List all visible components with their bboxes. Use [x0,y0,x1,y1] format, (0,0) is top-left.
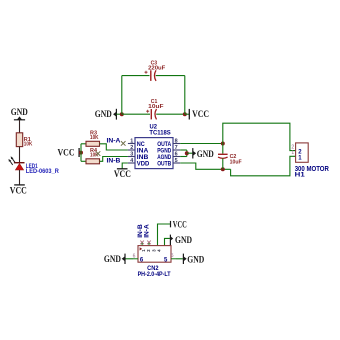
svg-text:2: 2 [130,145,133,151]
wire C2 top lead [222,144,224,154]
connector CN2 body [138,246,171,263]
wire left GND to CN2 [125,258,133,260]
U2 pin 6 stub [173,156,180,158]
wire CN2 to right GND [176,258,183,260]
junction node C2 bottom [221,167,225,171]
svg-text:5: 5 [171,253,174,259]
LED LED1 [9,156,25,170]
wire C1 to right node [156,113,185,115]
ground GND (decoupling rail) [95,109,117,120]
wire PGND pin 7 [180,149,187,151]
svg-text:10uF: 10uF [148,104,164,110]
wire C3 branch left riser [121,76,123,115]
wire vertical split [80,144,82,162]
capacitor C3 [145,70,157,81]
svg-text:PH-2.0-4P-LT: PH-2.0-4P-LT [138,272,171,278]
svg-text:TC118S: TC118S [149,129,170,136]
wire VCC to junction [79,152,81,154]
U2 pin 2 stub [128,149,135,151]
wire R3 to pin 2 [100,144,128,150]
svg-text:GND: GND [197,149,214,159]
power VCC (CN2) [171,220,187,230]
junction node right [183,112,187,116]
ground GND (CN2 right) [183,254,204,265]
svg-text:220uF: 220uF [148,66,166,72]
wire bottom rail step to motor [231,156,296,176]
net anchor X (IN-A) [121,141,126,146]
U2 pin 3 stub [128,156,135,158]
wire to GND [187,152,193,154]
svg-text:GND: GND [11,107,28,117]
wire R1 to LED1 [19,147,21,163]
svg-text:VCC: VCC [58,148,75,158]
svg-text:6: 6 [175,152,178,158]
capacitor C2 [218,154,228,158]
svg-text:LED-0603_R: LED-0603_R [26,169,60,175]
junction node VCC split [79,151,83,155]
connector H1 body [296,143,309,162]
wire CN2 pin 4 to GND [165,238,170,245]
power VCC (input divider) [58,148,80,158]
CN2 pin 5 stub [171,258,176,260]
svg-text:5: 5 [175,158,178,164]
svg-text:GND: GND [187,254,204,264]
wire OUTB pin 5 to bottom rail [180,163,230,169]
wire VDD to VCC [122,163,128,169]
ground GND (CN2 left) [104,254,125,264]
U2 pin 8 stub [173,143,180,145]
ground GND (driver pins) [193,148,214,159]
svg-text:VCC: VCC [114,169,131,179]
svg-text:1: 1 [130,139,133,145]
resistor R4 [86,159,100,164]
wire AGND pin 6 [180,156,187,158]
svg-text:GND: GND [95,109,112,119]
net anchor X (CN2 pin 1) [140,241,144,245]
IC U2 body [135,138,173,169]
wire joining pins 6 and 7 [186,150,188,157]
svg-text:10uF: 10uF [230,159,242,165]
wire to R3 [81,143,86,145]
wire node to VCC [185,113,190,115]
CN2 pin 6 stub [133,258,138,260]
power VCC (LED branch) [10,185,27,196]
svg-text:GND: GND [104,254,121,264]
capacitor C1 [146,109,156,119]
wire CN2 pin 3 to VCC [158,224,171,246]
svg-text:IN-B: IN-B [107,157,121,164]
svg-text:VDD: VDD [137,160,150,167]
svg-text:IN-A: IN-A [107,137,121,144]
wire C3 branch right riser [184,76,186,115]
svg-text:4: 4 [130,158,133,164]
svg-text:10K: 10K [90,135,99,141]
junction node left [120,112,124,116]
wire GND to node [116,113,122,115]
wire CN2 pin 2 stub [148,243,150,246]
svg-text:VCC: VCC [192,109,209,119]
svg-text:VCC: VCC [10,185,27,195]
net anchor X (IN-B) [96,151,101,156]
svg-text:1: 1 [291,150,294,156]
wire OUTA riser and top rail to motor [223,123,296,150]
junction node AGND/PGND [185,151,189,155]
U2 pin 5 stub [173,162,180,164]
wire node to C1 [122,113,150,115]
U2 pin 4 stub [128,162,135,164]
svg-text:8: 8 [175,139,178,145]
svg-text:CN2: CN2 [147,265,159,272]
wire C3 top rail right [156,75,185,77]
resistor R1 [16,133,22,147]
power VCC (VDD pin) [114,169,131,179]
ground GND (CN2 top) [170,235,192,247]
net anchor X (CN2 pin 2) [147,241,151,245]
ground GND (LED branch) [11,107,28,120]
svg-text:IN-A: IN-A [145,224,151,238]
U2 pin 1 stub [128,143,135,145]
wire to R4 [81,160,86,162]
svg-text:7: 7 [175,145,178,151]
wire C2 bottom lead [222,158,224,169]
U2 pin 7 stub [173,149,180,151]
svg-text:IN-B: IN-B [138,224,144,238]
wire CN2 pin 1 stub [141,243,143,246]
wire OUTA to node [180,143,223,145]
svg-text:VCC: VCC [173,220,187,230]
resistor R3 [86,141,100,146]
wire GND to R1 [19,120,21,133]
junction node OUTA [221,142,225,146]
svg-text:10K: 10K [24,142,33,148]
svg-text:H1: H1 [295,172,305,179]
svg-text:OUTB: OUTB [157,160,171,167]
wire C3 top rail left [122,75,150,77]
svg-text:GND: GND [175,235,192,245]
wire LED1 to VCC [19,170,21,185]
wire R4 to pin 3 [100,157,128,162]
svg-text:3: 3 [130,152,133,158]
power VCC (decoupling rail) [189,109,209,120]
svg-text:6: 6 [133,254,136,260]
CN2 pin 1 marker [140,247,143,250]
